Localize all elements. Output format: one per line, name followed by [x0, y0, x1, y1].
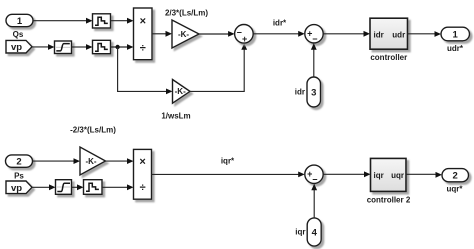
- svg-text:-2/3*(Ls/Lm): -2/3*(Ls/Lm): [70, 126, 116, 135]
- svg-text:−: −: [312, 34, 317, 44]
- wire controller2 to output port 2: [406, 172, 442, 178]
- wire divide to gain: [152, 31, 172, 37]
- input port 3: [307, 77, 321, 107]
- controller 2 subsystem U2: [371, 158, 407, 191]
- svg-text:1: 1: [453, 29, 459, 40]
- value label 2/3*(Ls/Lm): [165, 8, 208, 17]
- svg-text:udr: udr: [392, 30, 405, 39]
- signal label uqr*: [447, 184, 464, 193]
- gain 1/wsLm: [173, 80, 191, 104]
- wire vp to saturation 2: [32, 184, 56, 190]
- wire hold2 to divide input: [111, 44, 134, 50]
- sum junction S2: [305, 25, 323, 45]
- svg-text:iqr: iqr: [295, 228, 305, 237]
- signal label Ps: [14, 171, 24, 180]
- hold block 1 (top): [93, 14, 111, 28]
- svg-text:3: 3: [311, 88, 316, 99]
- svg-text:-K-: -K-: [178, 30, 189, 39]
- hold block 3: [84, 180, 103, 195]
- input port 4: [307, 218, 321, 246]
- svg-text:÷: ÷: [140, 42, 146, 54]
- wire sum2 to controller: [323, 31, 370, 37]
- svg-text:idr: idr: [374, 30, 384, 39]
- from tag vp (top): [6, 40, 32, 53]
- hold block 2: [93, 40, 111, 53]
- from tag vp (bottom): [6, 181, 32, 194]
- svg-text:uqr: uqr: [391, 171, 404, 180]
- svg-text:controller: controller: [370, 53, 407, 62]
- wire vp to saturation: [32, 44, 55, 50]
- wire divide2 to sum3: [152, 172, 305, 178]
- svg-text:uqr*: uqr*: [447, 184, 464, 193]
- input port 2: [6, 155, 33, 168]
- svg-text:idr: idr: [295, 87, 305, 96]
- signal label idr*: [273, 19, 287, 28]
- wire gain to sum1: [199, 31, 235, 37]
- wire sum1 to sum2: [253, 31, 305, 37]
- value label -2/3*(Ls/Lm): [70, 126, 116, 135]
- svg-text:+: +: [242, 34, 247, 44]
- divide block (bottom): [134, 149, 152, 199]
- controller subsystem U1: [370, 18, 408, 49]
- svg-text:×: ×: [139, 156, 145, 168]
- junction: [115, 45, 119, 49]
- wire hold3 to divide2 input: [102, 184, 134, 190]
- signal label idr: [295, 87, 305, 96]
- wire saturation to hold2: [72, 44, 93, 50]
- sum junction S3: [305, 165, 323, 185]
- wire port1 to hold1: [33, 18, 93, 24]
- signal label iqr*: [221, 157, 235, 166]
- svg-text:-K-: -K-: [175, 87, 186, 96]
- gain 2/3*(Ls/Lm): [172, 20, 199, 48]
- block label controller 2: [367, 195, 411, 204]
- wire port2 to gain: [33, 158, 81, 164]
- gain -2/3*(Ls/Lm): [80, 147, 106, 175]
- output port 1: [441, 27, 470, 41]
- input port 1: [6, 14, 33, 27]
- divide block (top): [134, 8, 153, 60]
- svg-text:vp: vp: [11, 183, 22, 194]
- svg-text:idr*: idr*: [273, 19, 287, 28]
- signal label iqr: [295, 228, 305, 237]
- svg-text:-K-: -K-: [85, 157, 96, 166]
- output port 2: [442, 169, 469, 182]
- wire junction to gain 1/wsLm: [118, 47, 173, 94]
- svg-text:iqr: iqr: [374, 171, 384, 180]
- sum junction S1: [235, 25, 254, 45]
- block label controller: [370, 53, 407, 62]
- svg-text:1: 1: [17, 16, 23, 27]
- saturation block (bottom): [56, 180, 72, 195]
- svg-text:vp: vp: [11, 42, 22, 53]
- svg-text:iqr*: iqr*: [221, 157, 235, 166]
- signal label Qs: [13, 30, 24, 39]
- svg-text:2/3*(Ls/Lm): 2/3*(Ls/Lm): [165, 8, 208, 17]
- svg-text:controller 2: controller 2: [367, 195, 411, 204]
- svg-text:4: 4: [312, 228, 318, 239]
- svg-text:udr*: udr*: [447, 44, 464, 53]
- svg-text:2: 2: [453, 171, 458, 182]
- wire gain to divide2 x input: [106, 158, 134, 164]
- wire controller to output port 1: [408, 31, 442, 37]
- wire hold1 to divide x input: [111, 18, 134, 24]
- signal label udr*: [447, 44, 464, 53]
- svg-text:×: ×: [140, 16, 146, 28]
- wire sum3 to controller2: [323, 171, 370, 177]
- wire gain 1/wsLm to sum1 bottom: [190, 43, 247, 91]
- wire port4 to sum3: [311, 184, 317, 218]
- saturation block (top): [55, 41, 72, 54]
- svg-text:Ps: Ps: [14, 171, 24, 180]
- svg-text:Qs: Qs: [13, 30, 24, 39]
- wire port3 to sum2: [311, 43, 317, 77]
- value label 1/wsLm: [161, 111, 190, 120]
- svg-text:1/wsLm: 1/wsLm: [161, 111, 190, 120]
- svg-text:2: 2: [16, 157, 21, 168]
- wire saturation2 to hold3: [72, 184, 84, 190]
- svg-text:−: −: [312, 175, 317, 185]
- svg-text:÷: ÷: [140, 182, 146, 194]
